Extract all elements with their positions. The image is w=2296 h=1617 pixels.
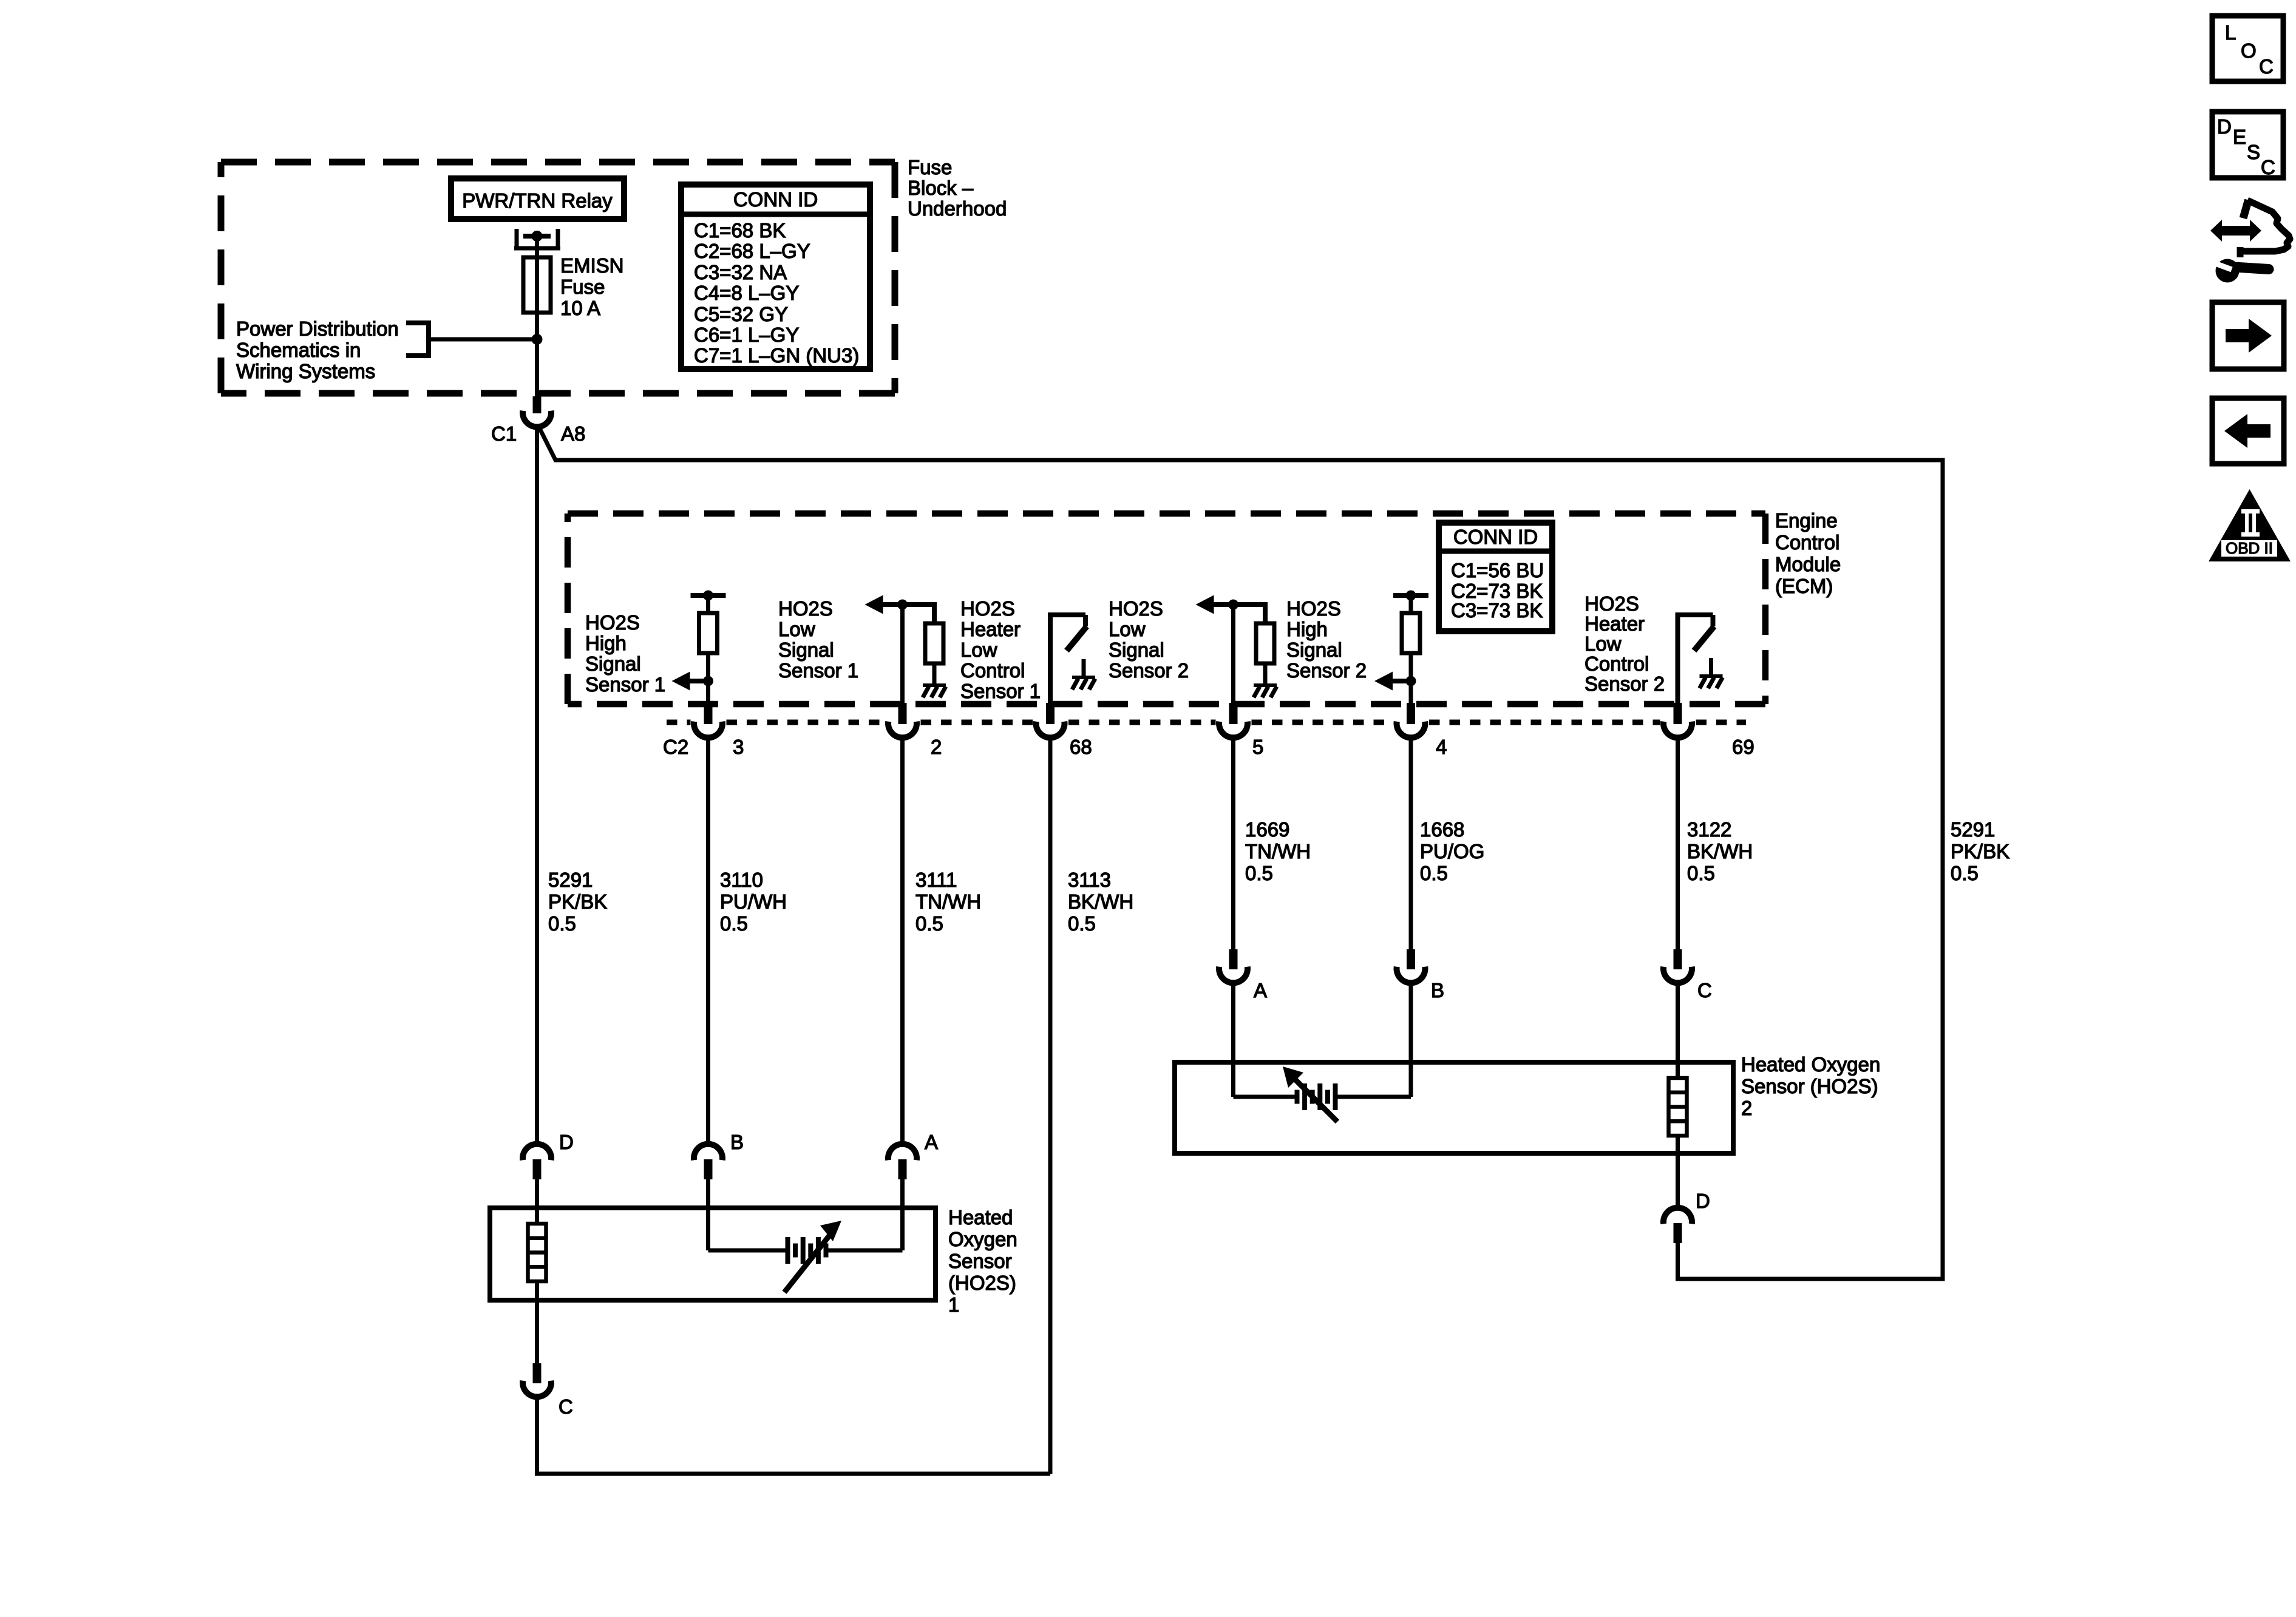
svg-text:0.5: 0.5 bbox=[1687, 862, 1715, 884]
HO2S1 sensor cell (variable voltage source with arrow) bbox=[708, 1221, 903, 1292]
svg-text:0.5: 0.5 bbox=[548, 912, 576, 935]
relay K1 PWR/TRN Relay label box bbox=[451, 178, 624, 219]
wire label 5291 PK/BK 0.5 (right) bbox=[1951, 818, 2009, 884]
svg-text:C: C bbox=[559, 1395, 573, 1418]
svg-text:D: D bbox=[1696, 1190, 1710, 1212]
svg-text:BK/WH: BK/WH bbox=[1068, 890, 1133, 913]
wire 3122 BK/WH pin69 down to HO2S2 pin C bbox=[1676, 738, 1680, 949]
ECM C2 connector interface dotted line bbox=[667, 720, 1746, 725]
svg-text:HO2S: HO2S bbox=[1286, 597, 1341, 620]
svg-text:HO2S: HO2S bbox=[960, 597, 1015, 620]
svg-text:C2=68 L–GY: C2=68 L–GY bbox=[694, 240, 810, 262]
label pin 3 bbox=[733, 736, 744, 758]
label HO2S High Signal Sensor 1 bbox=[585, 611, 665, 696]
svg-text:Sensor (HO2S): Sensor (HO2S) bbox=[1741, 1075, 1878, 1097]
svg-text:HO2S: HO2S bbox=[1109, 597, 1163, 620]
ECM driver HO2S High Signal Sensor 1 (resistor) bbox=[672, 591, 726, 705]
ECM driver HO2S Heater Low Control Sensor 1 (switch to ground) bbox=[1048, 615, 1095, 704]
icon vehicle diagnostic (car outline with double arrow and wrench) bbox=[2210, 200, 2290, 283]
svg-text:E: E bbox=[2233, 126, 2246, 148]
svg-text:C1=68 BK: C1=68 BK bbox=[694, 219, 786, 242]
label pin 5 bbox=[1252, 736, 1263, 758]
svg-text:Block –: Block – bbox=[908, 177, 974, 199]
wire A8 feed to right side and down to HO2S2 pin D (5291 upper run) bbox=[539, 427, 1943, 1279]
svg-text:3113: 3113 bbox=[1068, 869, 1111, 891]
svg-text:BK/WH: BK/WH bbox=[1687, 840, 1753, 863]
svg-text:Low: Low bbox=[1584, 632, 1622, 655]
svg-text:Sensor: Sensor bbox=[948, 1250, 1012, 1272]
svg-text:3122: 3122 bbox=[1687, 818, 1731, 841]
connector HO2S1 pin A bbox=[888, 1131, 938, 1179]
svg-text:5291: 5291 bbox=[548, 869, 593, 891]
svg-text:Control: Control bbox=[960, 659, 1025, 682]
label HO2S Low Signal Sensor 1 bbox=[778, 597, 858, 682]
connector HO2S2 pin B bbox=[1397, 949, 1445, 1002]
label Engine Control Module (ECM) bbox=[1775, 509, 1841, 597]
svg-text:L: L bbox=[2225, 21, 2236, 44]
wire HO2S1 B lead into box bbox=[706, 1179, 710, 1250]
svg-text:Control: Control bbox=[1584, 653, 1649, 675]
ECM driver HO2S Low Signal Sensor 1 (resistor to ground) bbox=[865, 595, 946, 705]
wire HO2S1 C ground return to 3113 bottom run bbox=[537, 1395, 1051, 1474]
wire fuse to connector C1 with tap junction bbox=[532, 313, 543, 398]
svg-text:Signal: Signal bbox=[778, 639, 834, 661]
label pin 68 bbox=[1070, 736, 1092, 758]
svg-text:Fuse: Fuse bbox=[560, 276, 605, 298]
fuse block CONN ID table box bbox=[681, 185, 870, 369]
svg-text:PWR/TRN Relay: PWR/TRN Relay bbox=[462, 189, 613, 212]
label pin 2 bbox=[931, 736, 942, 758]
icon OBD II triangle bbox=[2209, 489, 2291, 561]
svg-text:High: High bbox=[585, 632, 627, 654]
ECM CONN ID table text bbox=[1451, 526, 1544, 622]
svg-text:Sensor 1: Sensor 1 bbox=[778, 659, 858, 682]
svg-text:A8: A8 bbox=[561, 422, 585, 445]
svg-text:Low: Low bbox=[960, 639, 997, 661]
svg-text:Sensor 2: Sensor 2 bbox=[1584, 673, 1665, 695]
icon back arrow box bbox=[2212, 398, 2284, 464]
svg-text:Sensor 2: Sensor 2 bbox=[1286, 659, 1367, 682]
icon DESC box bbox=[2212, 112, 2283, 178]
svg-text:Heater: Heater bbox=[960, 618, 1021, 640]
svg-text:2: 2 bbox=[1741, 1097, 1752, 1119]
wire label 3110 PU/WH 0.5 bbox=[720, 869, 787, 935]
svg-text:Sensor 1: Sensor 1 bbox=[960, 680, 1041, 702]
ECM driver HO2S Heater Low Control Sensor 2 (switch to ground) bbox=[1676, 615, 1723, 704]
wire HO2S1 heater to pin C bbox=[535, 1281, 539, 1363]
HO2S1 heater element bbox=[528, 1224, 546, 1281]
svg-text:C: C bbox=[2261, 156, 2275, 178]
svg-text:C: C bbox=[2259, 55, 2274, 78]
connector HO2S1 pin D bbox=[523, 1131, 574, 1179]
svg-text:4: 4 bbox=[1436, 736, 1447, 758]
label HO2S Heater Low Control Sensor 1 bbox=[960, 597, 1041, 702]
connector HO2S2 pin A bbox=[1219, 949, 1267, 1002]
svg-text:HO2S: HO2S bbox=[778, 597, 833, 620]
svg-text:3111: 3111 bbox=[915, 869, 957, 891]
svg-text:Underhood: Underhood bbox=[908, 197, 1007, 220]
svg-text:Low: Low bbox=[1109, 618, 1146, 640]
svg-text:PK/BK: PK/BK bbox=[1951, 840, 2009, 863]
svg-text:C7=1 L–GN (NU3): C7=1 L–GN (NU3) bbox=[694, 344, 859, 367]
svg-text:C3=32 NA: C3=32 NA bbox=[694, 261, 787, 283]
svg-text:Control: Control bbox=[1775, 531, 1839, 554]
label pin 69 bbox=[1732, 736, 1754, 758]
connector HO2S2 pin D bbox=[1663, 1190, 1710, 1243]
wire 3113 BK/WH pin68 down to bottom run bbox=[1048, 738, 1053, 1474]
svg-text:Wiring Systems: Wiring Systems bbox=[236, 360, 375, 382]
wire label 1668 PU/OG 0.5 bbox=[1420, 818, 1484, 884]
svg-text:Signal: Signal bbox=[1109, 639, 1164, 661]
svg-text:Fuse: Fuse bbox=[908, 156, 952, 178]
wire label 3122 BK/WH 0.5 bbox=[1687, 818, 1753, 884]
svg-text:C6=1 L–GY: C6=1 L–GY bbox=[694, 324, 799, 346]
svg-text:Sensor 1: Sensor 1 bbox=[585, 673, 665, 696]
svg-text:O: O bbox=[2241, 39, 2257, 62]
relay K1 contact symbol bbox=[514, 229, 560, 248]
svg-text:1669: 1669 bbox=[1245, 818, 1289, 841]
ECM CONN ID table box bbox=[1439, 523, 1552, 631]
HO2S2 box bbox=[1175, 1062, 1733, 1153]
svg-text:Module: Module bbox=[1775, 553, 1841, 575]
svg-text:OBD II: OBD II bbox=[2226, 539, 2273, 557]
ECM dashed boundary box bbox=[568, 514, 1765, 704]
power distribution reference bracket and tap wire bbox=[406, 320, 537, 358]
label C2 connector id bbox=[663, 736, 688, 758]
label HO2S Heater Low Control Sensor 2 bbox=[1584, 592, 1665, 695]
wire 1668 PU/OG pin4 down to HO2S2 pin B bbox=[1409, 738, 1413, 949]
wire label 3111 TN/WH 0.5 bbox=[915, 869, 981, 935]
svg-text:5291: 5291 bbox=[1951, 818, 1995, 841]
wire HO2S1 A lead into box bbox=[900, 1179, 905, 1250]
svg-text:C1: C1 bbox=[491, 422, 517, 445]
svg-text:A: A bbox=[925, 1131, 938, 1153]
svg-text:0.5: 0.5 bbox=[720, 912, 748, 935]
svg-text:C4=8 L–GY: C4=8 L–GY bbox=[694, 282, 799, 304]
svg-text:(HO2S): (HO2S) bbox=[948, 1272, 1016, 1294]
svg-text:3110: 3110 bbox=[720, 869, 763, 891]
icon forward arrow box bbox=[2212, 302, 2284, 369]
icon LOC box bbox=[2212, 16, 2283, 81]
svg-text:0.5: 0.5 bbox=[1951, 862, 1978, 884]
connector C1 pin A8 (fuse block output) bbox=[491, 396, 585, 445]
svg-text:EMISN: EMISN bbox=[560, 254, 624, 277]
svg-text:Heater: Heater bbox=[1584, 612, 1645, 635]
svg-text:D: D bbox=[2217, 115, 2232, 138]
label pin 4 bbox=[1436, 736, 1447, 758]
svg-text:Heated: Heated bbox=[948, 1206, 1013, 1229]
label Fuse Block - Underhood bbox=[908, 156, 1007, 220]
wire HO2S2 A lead into box bbox=[1231, 982, 1235, 1097]
fuse block underhood dashed boundary box bbox=[221, 162, 895, 393]
svg-text:D: D bbox=[559, 1131, 574, 1153]
HO2S2 heater element bbox=[1669, 1078, 1687, 1136]
fuse F1 label EMISN Fuse 10 A bbox=[560, 254, 624, 319]
svg-text:Signal: Signal bbox=[585, 653, 641, 675]
fuse block CONN ID table text bbox=[694, 188, 859, 367]
svg-text:C1=56 BU: C1=56 BU bbox=[1451, 559, 1544, 581]
wire label 5291 PK/BK 0.5 (left) bbox=[548, 869, 607, 935]
svg-text:Low: Low bbox=[778, 618, 815, 640]
svg-text:69: 69 bbox=[1732, 736, 1754, 758]
svg-text:1: 1 bbox=[948, 1293, 959, 1316]
svg-text:C5=32 GY: C5=32 GY bbox=[694, 303, 788, 325]
wire label 3113 BK/WH 0.5 bbox=[1068, 869, 1133, 935]
svg-text:PU/OG: PU/OG bbox=[1420, 840, 1484, 863]
svg-text:PU/WH: PU/WH bbox=[720, 890, 787, 913]
svg-text:10 A: 10 A bbox=[560, 297, 600, 319]
wire relay to fuse bbox=[535, 236, 539, 257]
svg-text:3: 3 bbox=[733, 736, 744, 758]
svg-text:Oxygen: Oxygen bbox=[948, 1228, 1017, 1250]
svg-text:Engine: Engine bbox=[1775, 509, 1838, 532]
svg-text:A: A bbox=[1254, 979, 1267, 1002]
wire HO2S2 heater to pin D bbox=[1676, 1136, 1680, 1209]
ECM driver HO2S High Signal Sensor 2 (resistor) bbox=[1374, 591, 1428, 705]
label Heated Oxygen Sensor (HO2S) 2 bbox=[1741, 1053, 1880, 1119]
svg-text:B: B bbox=[730, 1131, 744, 1153]
wire 1669 TN/WH pin5 down to HO2S2 pin A bbox=[1231, 738, 1235, 949]
connector HO2S2 pin C bbox=[1663, 949, 1712, 1002]
svg-text:Heated Oxygen: Heated Oxygen bbox=[1741, 1053, 1880, 1076]
ECM driver HO2S Low Signal Sensor 2 (resistor to ground) bbox=[1196, 595, 1277, 705]
svg-text:TN/WH: TN/WH bbox=[915, 890, 981, 913]
svg-text:Power Distribution: Power Distribution bbox=[236, 317, 399, 340]
svg-text:High: High bbox=[1286, 618, 1328, 640]
wire 5291 PK/BK from C1 down to HO2S1 pin D bbox=[535, 425, 539, 1145]
HO2S2 sensor cell (variable voltage source with arrow) bbox=[1234, 1066, 1411, 1122]
svg-text:C2: C2 bbox=[663, 736, 688, 758]
svg-text:68: 68 bbox=[1070, 736, 1092, 758]
wire HO2S1 D lead into box bbox=[535, 1179, 539, 1224]
svg-text:HO2S: HO2S bbox=[585, 611, 640, 634]
HO2S1 box bbox=[490, 1208, 936, 1300]
svg-text:Sensor 2: Sensor 2 bbox=[1109, 659, 1189, 682]
label Power Distribution Schematics in Wiring Systems bbox=[236, 317, 399, 382]
svg-text:CONN ID: CONN ID bbox=[733, 188, 818, 211]
svg-text:CONN ID: CONN ID bbox=[1453, 526, 1538, 548]
svg-text:C: C bbox=[1697, 979, 1712, 1002]
svg-text:0.5: 0.5 bbox=[1068, 912, 1096, 935]
svg-text:S: S bbox=[2247, 141, 2260, 163]
svg-text:2: 2 bbox=[931, 736, 942, 758]
wire 3111 TN/WH pin2 down to HO2S1 pin A bbox=[900, 738, 905, 1145]
svg-text:0.5: 0.5 bbox=[915, 912, 943, 935]
svg-text:5: 5 bbox=[1252, 736, 1263, 758]
connector HO2S1 pin C bbox=[523, 1363, 573, 1418]
ECM connector pins row (blades and sockets) bbox=[694, 703, 1692, 737]
label HO2S High Signal Sensor 2 bbox=[1286, 597, 1367, 682]
svg-text:(ECM): (ECM) bbox=[1775, 575, 1833, 597]
svg-text:HO2S: HO2S bbox=[1584, 592, 1639, 615]
fuse F1 EMISN 10A bbox=[523, 257, 551, 313]
wire HO2S2 C lead into box bbox=[1676, 982, 1680, 1078]
svg-text:C3=73 BK: C3=73 BK bbox=[1451, 599, 1543, 622]
wire 3110 PU/WH pin3 down to HO2S1 pin B bbox=[706, 738, 710, 1145]
svg-text:TN/WH: TN/WH bbox=[1245, 840, 1311, 863]
svg-text:0.5: 0.5 bbox=[1420, 862, 1448, 884]
connector HO2S1 pin B bbox=[694, 1131, 744, 1179]
svg-text:PK/BK: PK/BK bbox=[548, 890, 607, 913]
wire HO2S2 B lead into box bbox=[1409, 982, 1413, 1097]
svg-text:B: B bbox=[1431, 979, 1444, 1002]
svg-text:0.5: 0.5 bbox=[1245, 862, 1273, 884]
svg-text:Schematics in: Schematics in bbox=[236, 339, 361, 361]
label Heated Oxygen Sensor (HO2S) 1 bbox=[948, 1206, 1017, 1316]
svg-text:Signal: Signal bbox=[1286, 639, 1342, 661]
wire label 1669 TN/WH 0.5 bbox=[1245, 818, 1311, 884]
svg-text:1668: 1668 bbox=[1420, 818, 1464, 841]
label HO2S Low Signal Sensor 2 bbox=[1109, 597, 1189, 682]
